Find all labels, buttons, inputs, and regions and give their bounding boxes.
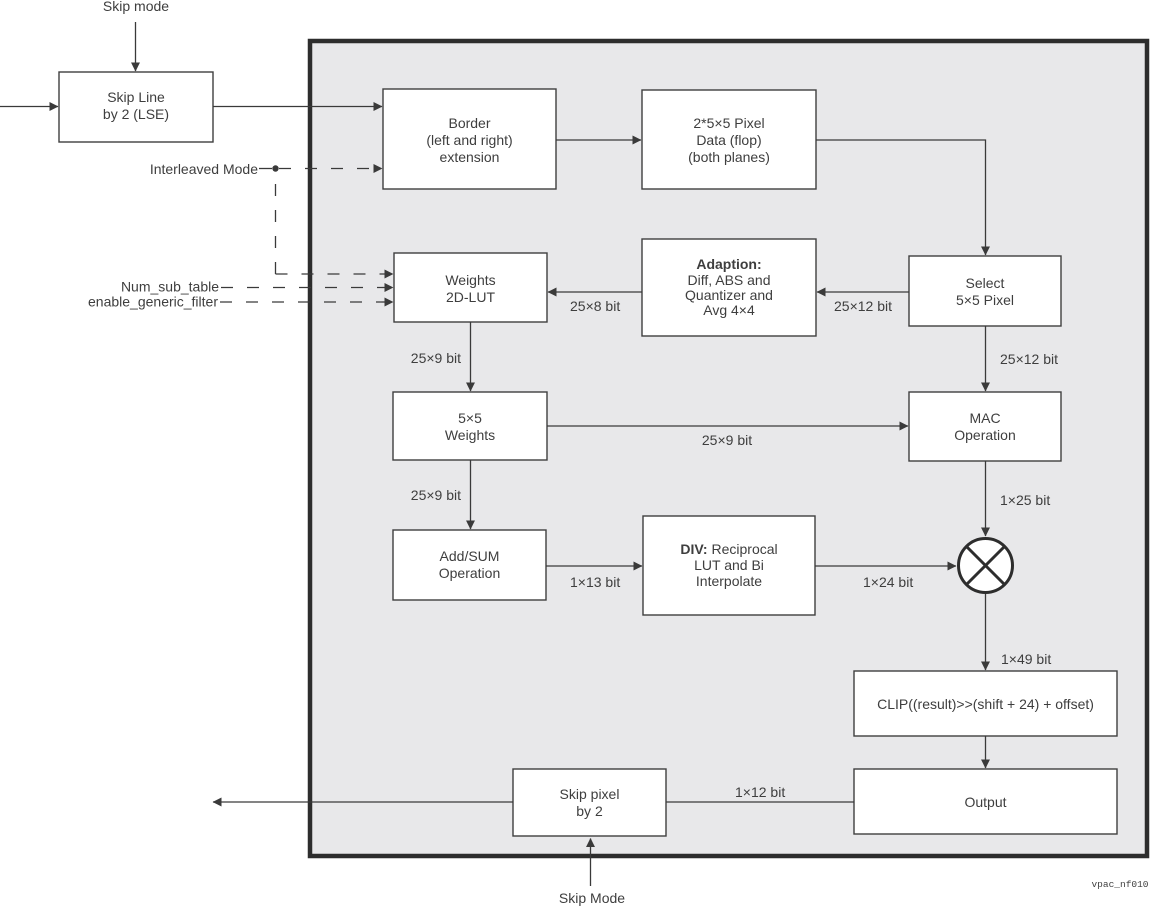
- block: CLIP((result)>>(shift + 24) + offset): [854, 671, 1117, 736]
- svg-text:DIV: Reciprocal: DIV: Reciprocal: [680, 541, 777, 557]
- svg-text:LUT and Bi: LUT and Bi: [694, 557, 764, 573]
- svg-text:Operation: Operation: [954, 427, 1015, 443]
- svg-text:1×25 bit: 1×25 bit: [1000, 492, 1050, 508]
- label: 1x49 bit (multiplier to CLIP): [1001, 651, 1051, 667]
- block: Skip pixel by 2: [513, 769, 666, 836]
- svg-text:MAC: MAC: [969, 410, 1000, 426]
- wire: CLIP down to Output: [985, 736, 987, 768]
- wire: 5x5 Weights down to Add/SUM: [470, 460, 472, 529]
- block: Weights 2D-LUT: [394, 253, 547, 322]
- wire: Output to Skip pixel: [666, 801, 854, 803]
- svg-text:by 2 (LSE): by 2 (LSE): [103, 106, 169, 122]
- svg-text:Skip mode: Skip mode: [103, 0, 169, 14]
- svg-text:1×49 bit: 1×49 bit: [1001, 651, 1051, 667]
- multiplier (circle with X): [959, 539, 1013, 593]
- svg-text:25×12 bit: 25×12 bit: [1000, 351, 1058, 367]
- svg-text:Skip Line: Skip Line: [107, 89, 165, 105]
- svg-text:25×8 bit: 25×8 bit: [570, 298, 620, 314]
- wire: enable_generic_filter dashed to Weights 2D-LUT: [220, 301, 393, 303]
- svg-text:Data (flop): Data (flop): [696, 132, 761, 148]
- wire: input arrow from left edge into Skip Line: [0, 106, 58, 108]
- wire: Interleaved Mode dashed down then right to Weights 2D-LUT: [276, 172, 394, 274]
- svg-text:Select: Select: [966, 275, 1005, 291]
- svg-text:Weights: Weights: [445, 427, 495, 443]
- wire: Select 5x5 Pixel down to MAC Operation: [985, 326, 987, 391]
- svg-text:Interpolate: Interpolate: [696, 573, 762, 589]
- svg-text:extension: extension: [440, 149, 500, 165]
- svg-text:by 2: by 2: [576, 803, 603, 819]
- svg-text:Weights: Weights: [445, 272, 495, 288]
- wire: Num_sub_table dashed to Weights 2D-LUT: [221, 287, 393, 289]
- wire: Skip Line to Border extension: [213, 106, 382, 108]
- svg-text:Adaption:: Adaption:: [696, 256, 761, 272]
- svg-text:Interleaved Mode: Interleaved Mode: [150, 161, 258, 177]
- wire: Border extension to 2*5x5 Pixel Data: [556, 139, 641, 141]
- wire: 5x5 Weights to MAC Operation: [547, 425, 908, 427]
- block: Border (left and right) extension: [383, 89, 556, 189]
- svg-text:Avg 4×4: Avg 4×4: [703, 302, 755, 318]
- label: Interleaved Mode: [150, 161, 258, 177]
- label: 1x12 bit (Output to Skip pixel): [735, 784, 785, 800]
- svg-text:Skip Mode: Skip Mode: [559, 890, 625, 906]
- wire: Select 5x5 Pixel to Adaption: [817, 291, 909, 293]
- label: 25x12 bit (Select to Adaption): [834, 298, 892, 314]
- label: 1x13 bit (Add/SUM to DIV): [570, 574, 620, 590]
- svg-text:25×9 bit: 25×9 bit: [411, 350, 461, 366]
- svg-text:Output: Output: [964, 794, 1006, 810]
- label: enable_generic_filter: [88, 294, 218, 310]
- svg-text:1×12 bit: 1×12 bit: [735, 784, 785, 800]
- block: 2*5x5 Pixel Data (flop) (both planes): [642, 90, 816, 189]
- svg-text:5×5: 5×5: [458, 410, 482, 426]
- svg-text:25×12 bit: 25×12 bit: [834, 298, 892, 314]
- svg-text:Num_sub_table: Num_sub_table: [121, 279, 219, 295]
- label: Skip Mode (bottom): [559, 890, 625, 906]
- wire: MAC down to multiplier: [985, 461, 987, 536]
- svg-text:2D-LUT: 2D-LUT: [446, 289, 495, 305]
- svg-text:1×13 bit: 1×13 bit: [570, 574, 620, 590]
- wire: Interleaved Mode dashed to Border extension (with junction dot): [259, 165, 382, 171]
- svg-text:CLIP((result)>>(shift + 24) +: CLIP((result)>>(shift + 24) + offset): [877, 696, 1094, 712]
- block: Skip Line by 2 (LSE): [59, 72, 213, 142]
- svg-text:25×9 bit: 25×9 bit: [411, 487, 461, 503]
- label: Skip mode (top): [103, 0, 169, 14]
- svg-text:Diff, ABS and: Diff, ABS and: [687, 272, 770, 288]
- label: 1x24 bit (DIV to multiplier): [863, 574, 913, 590]
- wire: DIV to multiplier: [815, 565, 956, 567]
- label: 25x8 bit (Adaption to Weights): [570, 298, 620, 314]
- wire: Weights 2D-LUT down to 5x5 Weights: [470, 322, 472, 391]
- svg-text:Add/SUM: Add/SUM: [440, 548, 500, 564]
- label: 25x9 bit (5x5 Weights to Add/SUM): [411, 487, 461, 503]
- wire: Skip mode down arrow: [135, 22, 137, 71]
- label: 25x9 bit (5x5 Weights to MAC): [702, 432, 752, 448]
- block: DIV: Reciprocal LUT and Bi Interpolate: [643, 516, 815, 615]
- svg-text:enable_generic_filter: enable_generic_filter: [88, 294, 218, 310]
- wire: Adaption to Weights 2D-LUT: [548, 291, 642, 293]
- svg-text:25×9 bit: 25×9 bit: [702, 432, 752, 448]
- label: Num_sub_table: [121, 279, 219, 295]
- svg-text:Border: Border: [448, 115, 490, 131]
- block: MAC Operation: [909, 392, 1061, 461]
- svg-text:vpac_nf010: vpac_nf010: [1091, 879, 1148, 890]
- wire: multiplier down to CLIP: [985, 594, 987, 670]
- svg-text:(both planes): (both planes): [688, 149, 770, 165]
- wire: Skip Mode up arrow into Skip pixel: [590, 839, 592, 887]
- svg-text:Operation: Operation: [439, 565, 500, 581]
- wire: Skip pixel output arrow to far left: [213, 801, 513, 803]
- svg-text:(left and right): (left and right): [426, 132, 512, 148]
- block: Select 5x5 Pixel: [909, 256, 1061, 326]
- wire: 2*5x5 Pixel Data right then down to Select 5x5 Pixel: [816, 140, 986, 255]
- wire: Add/SUM to DIV: [546, 565, 642, 567]
- svg-text:1×24 bit: 1×24 bit: [863, 574, 913, 590]
- block: 5x5 Weights: [393, 392, 547, 460]
- block: Add/SUM Operation: [393, 530, 546, 600]
- label: 1x25 bit (MAC to multiplier): [1000, 492, 1050, 508]
- label: vpac_nf010 watermark: [1091, 879, 1148, 890]
- svg-text:Quantizer and: Quantizer and: [685, 287, 773, 303]
- block: Output: [854, 769, 1117, 834]
- svg-text:5×5 Pixel: 5×5 Pixel: [956, 292, 1014, 308]
- functional block boundary (gray region): [310, 41, 1147, 856]
- svg-text:2*5×5 Pixel: 2*5×5 Pixel: [693, 115, 764, 131]
- svg-text:Skip pixel: Skip pixel: [560, 786, 620, 802]
- label: 25x9 bit (Weights to 5x5 Weights): [411, 350, 461, 366]
- label: 25x12 bit (Select to MAC): [1000, 351, 1058, 367]
- block: Adaption: Diff, ABS and Quantizer and Avg 4x4: [642, 239, 816, 336]
